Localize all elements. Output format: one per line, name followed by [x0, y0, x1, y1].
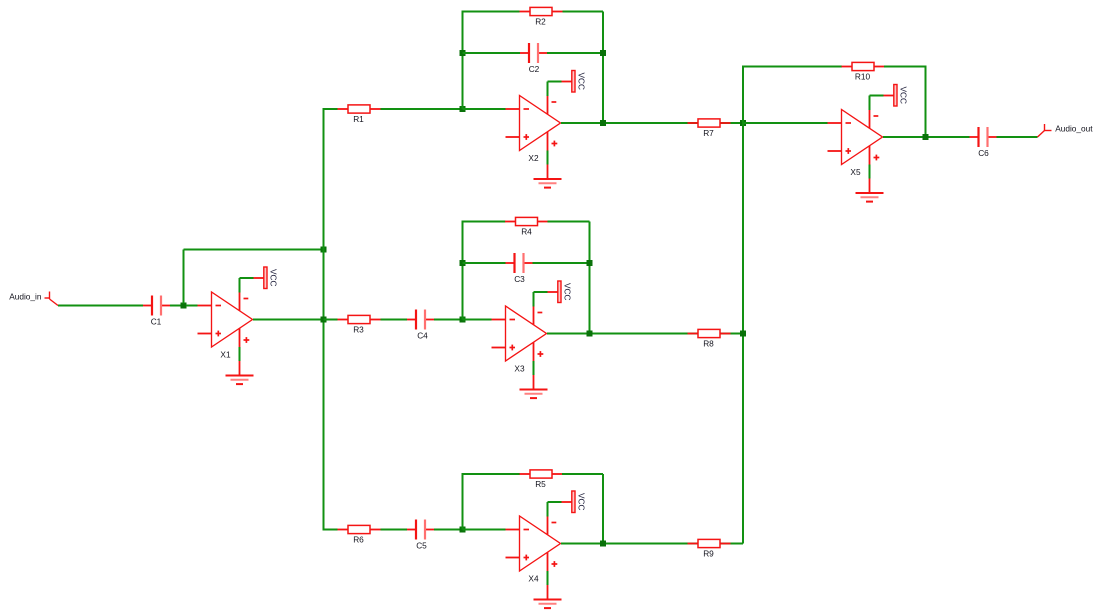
label X1 — [220, 349, 231, 359]
node J7 (X2 output) — [600, 120, 606, 126]
capacitor C2 — [520, 43, 547, 63]
capacitor C4 — [407, 310, 434, 330]
resistor R7 — [688, 119, 731, 127]
node J1 (X1 inverting input) — [181, 303, 187, 309]
resistor R1 — [338, 105, 381, 113]
capacitor C3 — [506, 253, 533, 273]
svg-text:R6: R6 — [353, 534, 364, 544]
ground at X2 — [534, 151, 562, 188]
label R6 — [353, 534, 364, 544]
op-amp X3 — [492, 306, 547, 362]
node J6 (C2 right) — [600, 50, 606, 56]
label X5 — [850, 167, 861, 177]
wire R10 right vertical — [925, 66, 927, 138]
wire X4 feedback left vertical — [462, 474, 464, 530]
wire J1 to X1 input — [186, 305, 198, 307]
svg-text:R2: R2 — [535, 16, 546, 26]
wire bus corner to R1 — [323, 108, 338, 110]
label R7 — [703, 128, 714, 138]
label C3 — [514, 274, 525, 284]
resistor R4 — [505, 217, 548, 225]
node J2 (left bus / feedback) — [321, 247, 327, 253]
wire X4 output — [561, 543, 743, 545]
wire Audio_in to C1 — [58, 305, 143, 307]
op-amp X1 — [198, 292, 253, 348]
wire J10 to X3 input — [463, 319, 492, 321]
wire J8 to X5 input — [743, 122, 828, 124]
label VCC at X4 — [577, 493, 587, 511]
svg-text:R7: R7 — [703, 128, 714, 138]
wire feedback horizontal to left bus — [184, 249, 324, 251]
svg-text:VCC: VCC — [563, 283, 573, 301]
op-amp X2 — [506, 95, 561, 151]
resistor R3 — [338, 315, 381, 323]
capacitor C5 — [407, 520, 434, 540]
wire R5 row left — [462, 473, 521, 475]
wire X3 feedback right vertical — [589, 222, 591, 334]
wire C4 to node J10 — [434, 319, 463, 321]
port Audio_out — [1038, 124, 1052, 137]
svg-text:R8: R8 — [703, 338, 714, 348]
node J11 (C3 left) — [460, 260, 466, 266]
ground at X1 — [226, 347, 254, 384]
wire R1 to node J4 — [381, 108, 463, 110]
svg-text:VCC: VCC — [577, 73, 587, 91]
wire C6 to port — [997, 136, 1038, 138]
svg-text:C2: C2 — [529, 64, 540, 74]
label X4 — [528, 573, 539, 583]
net label Audio_in — [9, 292, 42, 302]
wire bus corner to R6 — [323, 529, 338, 531]
svg-text:VCC: VCC — [577, 493, 587, 511]
svg-text:VCC: VCC — [899, 87, 909, 105]
label R3 — [353, 324, 364, 334]
node J16 (X4 output) — [600, 541, 606, 547]
resistor R10 — [842, 62, 885, 70]
resistor R6 — [338, 525, 381, 533]
node J15 (X4 inverting input) — [460, 527, 466, 533]
capacitor C1 — [143, 296, 170, 316]
wire left bus vertical — [323, 109, 325, 530]
label X3 — [514, 363, 525, 373]
port Audio_in — [45, 292, 59, 306]
resistor R5 — [520, 470, 563, 478]
label C2 — [529, 64, 540, 74]
wire X2 output — [561, 122, 743, 124]
wire X3 output — [547, 333, 743, 335]
wire J3 to R3 — [324, 319, 338, 321]
wire R2 row left — [462, 11, 520, 13]
wire C2 row left — [463, 52, 521, 54]
svg-text:X3: X3 — [514, 363, 525, 373]
label R10 — [855, 71, 871, 81]
wire R2 row right — [563, 11, 604, 13]
wire R5 row right — [562, 473, 603, 475]
svg-text:R10: R10 — [855, 71, 871, 81]
VCC symbol at X2 — [548, 71, 576, 97]
label VCC at X5 — [899, 87, 909, 105]
svg-text:C4: C4 — [417, 331, 428, 341]
svg-text:X5: X5 — [850, 167, 861, 177]
svg-text:X1: X1 — [220, 349, 231, 359]
capacitor C6 — [970, 127, 997, 147]
svg-text:X2: X2 — [528, 153, 539, 163]
op-amp X5 — [828, 109, 883, 165]
wire X2 feedback right vertical — [602, 12, 604, 124]
wire C5 to node J15 — [434, 529, 463, 531]
svg-text:C1: C1 — [151, 317, 162, 327]
node J4 (X2 inverting input) — [460, 106, 466, 112]
svg-text:R1: R1 — [353, 114, 364, 124]
ground at X5 — [856, 165, 884, 202]
label X2 — [528, 153, 539, 163]
svg-text:C3: C3 — [514, 274, 525, 284]
node J14 (R8 to right bus) — [740, 331, 746, 337]
wire X4 feedback right vertical — [602, 474, 604, 544]
label R4 — [521, 226, 532, 236]
resistor R9 — [688, 539, 731, 547]
wire X1 output to bus — [253, 319, 324, 321]
label R9 — [703, 548, 714, 558]
label R5 — [535, 479, 546, 489]
wire J15 to X4 input — [463, 529, 506, 531]
node J12 (C3 right) — [587, 260, 593, 266]
label C5 — [416, 541, 427, 551]
label C1 — [151, 317, 162, 327]
wire C3 row right — [533, 262, 590, 264]
label C6 — [978, 148, 989, 158]
resistor R2 — [520, 7, 563, 15]
wire right bus vertical — [742, 67, 744, 544]
wire R10 row right — [884, 66, 926, 68]
svg-text:X4: X4 — [528, 573, 539, 583]
label VCC at X3 — [563, 283, 573, 301]
svg-text:VCC: VCC — [269, 269, 279, 287]
wire R6 to C5 — [381, 529, 408, 531]
VCC symbol at X3 — [534, 281, 562, 307]
wire R4 row left — [462, 221, 506, 223]
VCC symbol at X1 — [240, 267, 268, 293]
ground at X3 — [520, 361, 548, 398]
label C4 — [417, 331, 428, 341]
svg-text:C5: C5 — [416, 541, 427, 551]
node J8 (right bus / X5 input) — [740, 120, 746, 126]
svg-text:R3: R3 — [353, 324, 364, 334]
node J3 (X1 output on bus) — [321, 317, 327, 323]
wire C1 to node J1 — [170, 305, 181, 307]
wire R4 row right — [548, 221, 590, 223]
label R8 — [703, 338, 714, 348]
net label Audio_out — [1055, 123, 1093, 133]
op-amp X4 — [506, 516, 561, 572]
node J9 (X5 output) — [923, 134, 929, 140]
wire X5 output — [883, 136, 970, 138]
wire R3 to C4 — [381, 319, 408, 321]
wire C2 row right — [547, 52, 603, 54]
node J10 (X3 inverting input) — [460, 317, 466, 323]
label R1 — [353, 114, 364, 124]
wire X2 feedback left vertical — [462, 12, 464, 110]
resistor R8 — [688, 329, 731, 337]
label VCC at X1 — [269, 269, 279, 287]
VCC symbol at X5 — [870, 85, 898, 111]
svg-text:Audio_in: Audio_in — [9, 292, 42, 302]
wire feedback vertical (J1 up) — [183, 250, 185, 304]
svg-text:R4: R4 — [521, 226, 532, 236]
wire J4 to X2 input — [463, 108, 506, 110]
label R2 — [535, 16, 546, 26]
node J13 (X3 output) — [587, 331, 593, 337]
label VCC at X2 — [577, 73, 587, 91]
wire C3 row left — [463, 262, 506, 264]
ground at X4 — [534, 571, 562, 608]
wire R10 row left — [742, 66, 842, 68]
node J5 (C2 left) — [460, 50, 466, 56]
svg-text:C6: C6 — [978, 148, 989, 158]
VCC symbol at X4 — [548, 491, 576, 517]
svg-text:Audio_out: Audio_out — [1055, 123, 1093, 133]
svg-text:R5: R5 — [535, 479, 546, 489]
svg-text:R9: R9 — [703, 548, 714, 558]
wire X3 feedback left vertical — [462, 222, 464, 320]
